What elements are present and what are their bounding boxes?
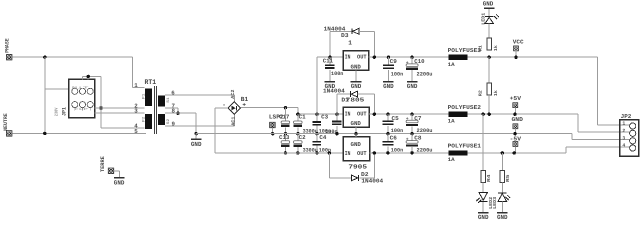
ground C9 GND [383,81,394,82]
svg-text:230V: 230V [55,107,60,116]
svg-text:1N4004: 1N4004 [361,177,383,184]
ground terre GND [114,177,125,178]
svg-text:S2: S2 [166,118,171,124]
junction C2 minus [296,151,299,154]
wire +5V to JP2 pin2 [577,114,579,132]
capacitor C3 [316,114,318,121]
junction C6 top [386,132,389,135]
svg-text:2200u: 2200u [417,128,433,134]
wire terre [114,170,120,172]
capacitor C12 [336,114,338,121]
wire U2 out rail [369,113,578,115]
resistor R1 [488,23,490,37]
junction neutre [43,132,46,135]
svg-text:100n: 100n [391,148,403,154]
svg-text:1: 1 [134,82,138,89]
junction D2 cathode [373,151,376,154]
resistor R2 [488,57,490,83]
capacitor C11 [329,57,331,64]
wire trafo pin1 [132,57,134,87]
junction C7 gnd [410,132,413,135]
wire bridge minus to negative rail [215,107,228,109]
svg-text:AC2: AC2 [230,89,236,98]
svg-text:5: 5 [134,128,138,135]
junction VCC port [514,56,517,59]
junction C3 gnd [315,132,318,135]
junction C12 column [335,113,338,116]
svg-text:IN: IN [345,150,351,157]
junction -5V port [513,151,516,154]
ground U1 GND [351,81,362,82]
svg-text:+: + [406,138,409,143]
JP1 pin circles top row [72,88,78,94]
wire JP1 top pins tie [81,76,83,79]
svg-text:R4: R4 [486,174,492,182]
junction C8 bottom [410,151,413,154]
junction C5 gnd [386,132,389,135]
svg-text:LED3: LED3 [492,197,498,209]
svg-text:OUT: OUT [357,54,367,61]
wire trafo pin6 to bridge AC2 [165,94,235,96]
RT1 primary winding lower [145,114,152,129]
junction JP1 top [87,75,90,78]
wire positive feed line [298,113,343,115]
svg-text:+5V: +5V [510,95,522,102]
svg-text:C8: C8 [414,135,422,142]
regulator U1 gnd pin [355,70,357,81]
svg-text:100n: 100n [331,71,343,77]
capacitor C13 [284,134,286,141]
svg-text:1: 1 [622,121,625,127]
junction C12 gnd [335,132,338,135]
junction D1 cathode [373,113,376,116]
svg-text:RT1: RT1 [145,79,157,87]
svg-text:D3: D3 [341,32,349,39]
junction pins2-4 tie [99,106,102,109]
ground center tap GND [195,134,197,139]
svg-text:LED1: LED1 [481,13,487,25]
svg-text:8: 8 [172,108,176,115]
wire 7812 feed riser [316,57,318,114]
svg-text:OUT: OUT [357,150,367,157]
capacitor C10 [411,57,413,64]
svg-text:JP2: JP2 [621,113,632,120]
svg-text:1A: 1A [448,118,456,124]
junction C3 column [315,113,318,116]
polyfuse F3 [449,55,468,60]
junction C5 top [386,113,389,116]
capacitor C1 [297,114,299,121]
svg-text:4: 4 [622,143,625,149]
junction C7 top [410,113,413,116]
svg-text:1A: 1A [448,62,456,68]
svg-text:GND: GND [351,83,362,90]
svg-text:C1: C1 [299,114,307,121]
svg-text:C6: C6 [390,135,398,142]
svg-text:GND: GND [191,141,202,148]
svg-text:AC1: AC1 [230,116,236,125]
svg-text:FLP: FLP [74,107,88,111]
junction R1 vcc [488,56,491,59]
svg-text:GND: GND [351,141,362,148]
junction R5 top [501,151,504,154]
svg-text:C13: C13 [279,134,290,141]
junction C6 bottom [386,151,389,154]
svg-text:GND: GND [497,214,508,221]
polyfuse F1 [449,150,468,155]
junction R4 top [482,113,485,116]
capacitor C7 [411,114,413,120]
RT1 secondary winding lower [158,114,165,125]
capacitor C2 [297,134,299,141]
svg-text:VCC: VCC [513,39,524,46]
svg-text:OUT: OUT [357,110,367,117]
svg-text:N⊥T: N⊥T [72,85,89,89]
regulator U2 box [343,107,369,127]
svg-text:1k: 1k [493,45,499,52]
capacitor C5 [387,114,389,120]
svg-text:R1: R1 [478,45,483,52]
wire U3 out rail [370,152,567,154]
svg-text:7805: 7805 [346,96,365,103]
svg-text:S1: S1 [166,97,171,103]
ground C10 GND [407,81,418,82]
wire JP1 left vertical [44,57,46,133]
wire JP1 to trafo pins 2+4 [100,76,102,128]
svg-text:PHASE: PHASE [5,38,11,53]
svg-text:3: 3 [622,135,625,141]
RT1 primary winding upper [145,89,152,106]
junction C10 top [410,56,413,59]
diode D1 [337,93,351,95]
svg-text:GND: GND [483,1,494,8]
wire raw step down [297,108,299,115]
resistor R4 [482,114,484,170]
regulator U1 box [343,51,369,71]
ground LED3 GND [501,201,503,212]
svg-text:NEUTRE: NEUTRE [3,113,9,131]
polyfuse F2 [449,112,468,117]
junction C4 minus [315,151,318,154]
svg-text:P1: P1 [142,93,147,99]
junction raw to C17 [284,106,287,109]
junction R2 +5V [488,113,491,116]
rectifier B1 body [228,102,241,115]
junction C17 gnd [284,132,287,135]
junction +5V port [513,113,516,116]
junction C1 gnd [296,132,299,135]
svg-text:GND: GND [114,179,125,186]
svg-text:2: 2 [622,128,625,134]
svg-text:1k: 1k [493,90,499,97]
svg-text:1: 1 [348,39,352,46]
svg-text:C7: C7 [414,115,422,122]
diode D2 [328,153,330,178]
regulator U3 box [343,137,370,161]
regulator U3 gnd pin [355,134,357,137]
svg-text:P2: P2 [142,116,147,122]
svg-text:JP1: JP1 [62,107,68,116]
junction phase/JP1 feed [43,56,46,59]
svg-text:C10: C10 [414,58,425,65]
led LED2 [482,183,484,193]
capacitor C17 [284,108,286,121]
junction D3 anode [328,56,331,59]
svg-text:GND: GND [351,120,362,127]
svg-text:C5: C5 [392,115,400,122]
svg-text:C3: C3 [321,114,329,121]
svg-text:IN: IN [345,54,351,61]
svg-text:2200u: 2200u [417,148,433,154]
resistor R5 [501,153,503,170]
wire trafo pin7 [165,107,178,109]
svg-text:POLYFUSE2: POLYFUSE2 [448,104,482,111]
wire negative rail left [215,152,343,154]
junction regulators gnd [354,132,357,135]
wire GND to JP2 pin3 [571,134,573,140]
wire U1 out rail [369,56,598,58]
wire JP1 left pin [45,88,69,90]
svg-text:7905: 7905 [348,163,367,170]
svg-text:+: + [406,117,409,122]
junction LSP2 gnd [271,132,274,135]
led LED3 [501,183,503,193]
svg-text:9: 9 [172,121,176,128]
svg-text:GND: GND [512,116,524,123]
svg-text:GND: GND [383,83,394,90]
wire -5V to JP2 pin4 [565,147,567,153]
svg-text:2200u: 2200u [417,71,433,77]
svg-text:GND: GND [478,214,489,221]
wire trafo pin8 [165,112,196,114]
JP1 bottom pin stubs and labels [74,108,76,111]
svg-text:6: 6 [171,89,175,96]
junction pins7-8 center tap [176,112,179,115]
capacitor C4 [316,134,318,141]
svg-text:100n: 100n [391,128,403,134]
led LED1 [488,9,490,16]
wire VCC to JP2 pin1 [597,57,599,125]
svg-text:IN: IN [345,110,351,117]
svg-text:+: + [406,61,409,66]
svg-text:GND: GND [407,83,418,90]
svg-text:GND: GND [351,63,362,70]
svg-text:TERRE: TERRE [100,156,106,172]
svg-text:C11: C11 [323,58,334,65]
junction GND port [513,132,516,135]
svg-text:LSP2: LSP2 [269,113,284,120]
connector JP1 box [69,79,95,117]
svg-text:POLYFUSE1: POLYFUSE1 [448,143,482,150]
svg-text:-: - [222,102,226,109]
capacitor C6 [387,134,389,141]
regulator U2 gnd pin [355,127,357,134]
ground C11 GND [325,81,336,82]
JP1 pin circles bottom row [72,102,78,108]
svg-text:3: 3 [134,108,138,115]
ground LED2 GND [482,202,484,212]
wire JP1 right pin to trafo pin3 [95,112,145,114]
capacitor C8 [411,134,413,141]
junction center tap to ground rail [195,132,198,135]
junction C9 top [387,56,390,59]
svg-text:R2: R2 [478,90,483,97]
wire ground rail [196,133,572,135]
wire bridge plus raw rail [241,107,298,109]
RT1 core [154,86,156,134]
wire R2 to +5V rail [488,95,490,114]
junction D2 anode [328,151,331,154]
diode D3 [330,30,352,32]
wire JP1 right pin to trafo pin2 [95,107,145,109]
wire neutre rail [12,132,146,134]
svg-text:100n: 100n [391,71,403,77]
wire trafo pin9 to bridge AC1 [165,125,235,127]
svg-text:1A: 1A [448,157,456,163]
junction C13 minus [284,151,287,154]
svg-text:R5: R5 [505,174,511,182]
junction D3 cathode [373,56,376,59]
capacitor C9 [387,57,389,64]
svg-text:1N4004: 1N4004 [323,88,345,95]
RT1 secondary winding upper [158,95,165,106]
wire phase rail [12,56,132,58]
svg-text:C9: C9 [390,58,398,65]
svg-text:POLYFUSE3: POLYFUSE3 [448,47,482,54]
svg-text:C2: C2 [299,134,307,141]
junction C1 column [296,113,299,116]
